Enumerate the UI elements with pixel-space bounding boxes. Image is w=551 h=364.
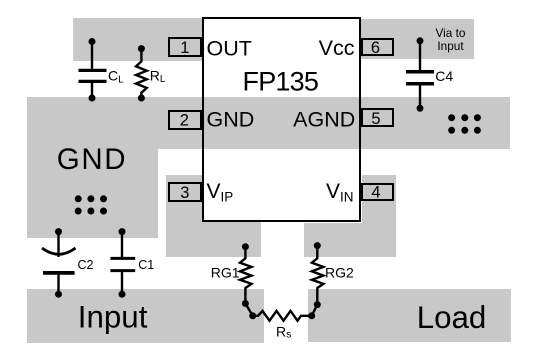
- svg-text:6: 6: [371, 39, 380, 57]
- svg-text:C4: C4: [435, 68, 453, 84]
- svg-text:Rs: Rs: [276, 323, 291, 340]
- svg-text:AGND: AGND: [293, 107, 355, 131]
- svg-text:RG2: RG2: [325, 265, 354, 281]
- svg-text:C2: C2: [78, 258, 94, 272]
- svg-text:GND: GND: [207, 108, 255, 132]
- svg-text:1: 1: [180, 39, 189, 57]
- svg-text:RL: RL: [150, 68, 166, 86]
- svg-text:2: 2: [180, 112, 189, 130]
- svg-text:Via to: Via to: [436, 26, 466, 40]
- svg-text:Load: Load: [417, 300, 487, 335]
- svg-text:Input: Input: [78, 300, 148, 335]
- svg-text:VIP: VIP: [207, 180, 234, 204]
- svg-text:FP135: FP135: [243, 67, 319, 97]
- svg-text:5: 5: [371, 110, 380, 128]
- svg-text:VIN: VIN: [326, 180, 354, 204]
- svg-text:3: 3: [180, 184, 189, 202]
- svg-text:Input: Input: [437, 39, 464, 53]
- svg-text:OUT: OUT: [207, 36, 252, 60]
- svg-text:4: 4: [371, 184, 380, 202]
- svg-text:CL: CL: [108, 68, 124, 86]
- svg-text:C1: C1: [138, 258, 154, 272]
- svg-text:RG1: RG1: [211, 265, 240, 281]
- svg-text:Vcc: Vcc: [319, 36, 355, 60]
- svg-text:GND: GND: [57, 143, 127, 176]
